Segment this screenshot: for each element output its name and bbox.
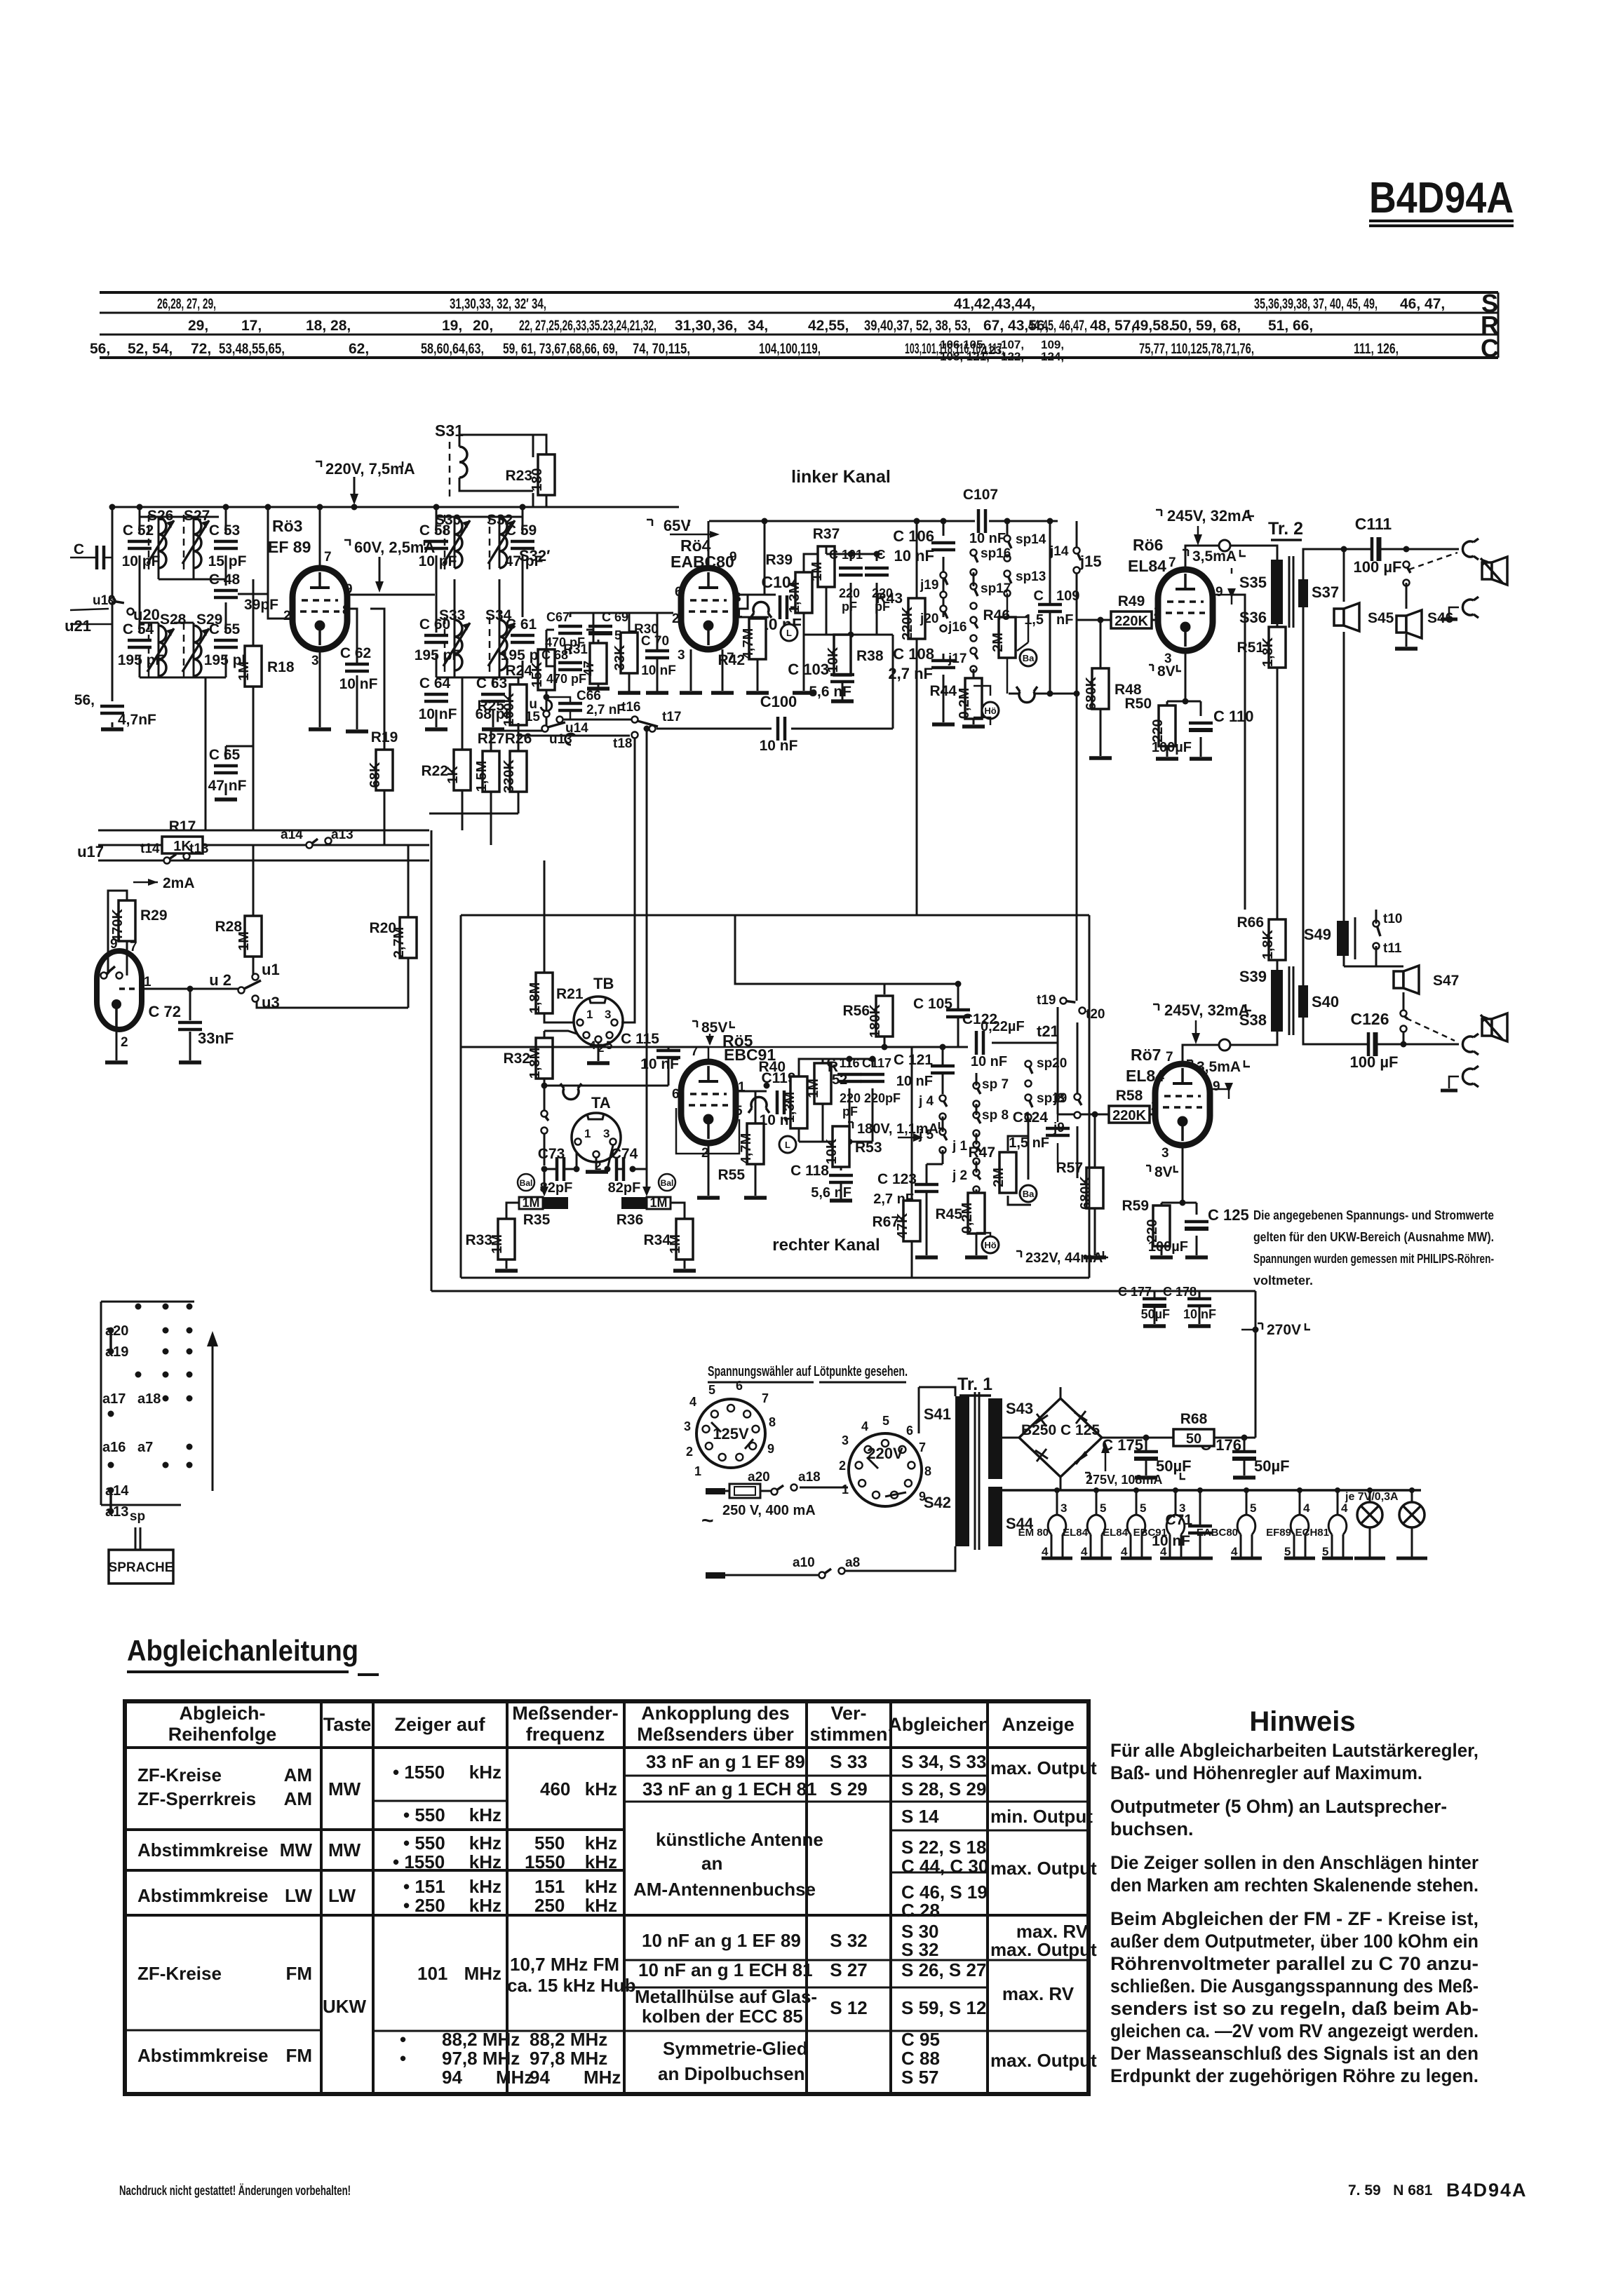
capacitor C109 upper channel xyxy=(1049,521,1051,694)
wire EBC91 cathode gnd xyxy=(708,1143,710,1196)
svg-text:39pF: 39pF xyxy=(244,597,278,613)
wire R55 xyxy=(755,1091,757,1196)
svg-text:85V: 85V xyxy=(701,1020,727,1036)
switch sp13 xyxy=(1004,569,1046,597)
svg-text:R36: R36 xyxy=(617,1212,644,1228)
svg-text:B250 C 125: B250 C 125 xyxy=(1021,1422,1100,1438)
jack socket xyxy=(1462,597,1479,618)
svg-text:10K: 10K xyxy=(824,1138,840,1164)
capacitor C 59 xyxy=(505,522,544,569)
svg-text:LW: LW xyxy=(285,1885,312,1906)
resistor R34 net xyxy=(671,1203,685,1269)
capacitor C121 xyxy=(931,1066,955,1073)
wire EL84 screen pin9 xyxy=(1213,568,1232,605)
svg-text:j 5: j 5 xyxy=(918,1128,934,1142)
mains plug terminal upper xyxy=(706,1488,725,1494)
transformer S40 bar xyxy=(1298,985,1339,1018)
capacitor C178 xyxy=(1199,1291,1201,1324)
svg-text:S 14: S 14 xyxy=(901,1806,939,1827)
svg-text:S49: S49 xyxy=(1304,926,1331,943)
svg-text:3: 3 xyxy=(842,1433,849,1447)
svg-text:künstliche Antenne: künstliche Antenne xyxy=(656,1829,823,1850)
svg-text:S 26, S 27: S 26, S 27 xyxy=(901,1959,986,1980)
svg-text:97,8 MHz: 97,8 MHz xyxy=(530,2048,607,2069)
svg-text:245V, 32mA: 245V, 32mA xyxy=(1164,1001,1250,1019)
svg-text:Hö: Hö xyxy=(984,705,996,716)
svg-text:50µF: 50µF xyxy=(1141,1307,1170,1321)
svg-text:kHz: kHz xyxy=(469,1851,501,1872)
ground xyxy=(586,1170,608,1174)
wire FM IF row verticals xyxy=(436,507,523,727)
svg-text:10 nF: 10 nF xyxy=(339,676,378,692)
svg-text:C 175: C 175 xyxy=(1102,1436,1143,1454)
svg-text:33K: 33K xyxy=(612,644,628,670)
capacitor C100 xyxy=(778,717,785,741)
svg-text:31,30,: 31,30, xyxy=(675,318,715,334)
svg-text:1,3M: 1,3M xyxy=(782,1092,797,1123)
capacitor C111 xyxy=(1372,537,1379,561)
svg-text:1,5 nF: 1,5 nF xyxy=(1009,1135,1049,1151)
svg-text:C: C xyxy=(74,541,84,558)
svg-text:8: 8 xyxy=(769,1415,776,1429)
svg-text:min. Output: min. Output xyxy=(990,1806,1093,1827)
switch sp 7 xyxy=(974,1077,1009,1107)
resistor R27 xyxy=(474,731,504,792)
resistor R49 xyxy=(1111,593,1152,629)
svg-text:j16: j16 xyxy=(948,620,967,635)
tube EM80 indicator xyxy=(97,937,151,1050)
wire tone network left channel xyxy=(943,521,1007,722)
svg-text:an: an xyxy=(701,1853,722,1874)
resistor R50 xyxy=(1150,705,1176,746)
svg-text:S 29: S 29 xyxy=(830,1778,868,1799)
jack socket xyxy=(1462,1066,1479,1087)
capacitor C124 xyxy=(1046,1128,1070,1135)
coil S26 xyxy=(147,508,174,571)
wire R32 bottom junction xyxy=(544,1078,668,1166)
ground xyxy=(831,699,854,703)
svg-text:100 µF: 100 µF xyxy=(1354,558,1402,576)
svg-text:94: 94 xyxy=(530,2067,550,2088)
wire 65V arrow xyxy=(670,534,715,536)
resistor R30 xyxy=(612,633,638,673)
tube Rö5 xyxy=(672,1032,776,1161)
ground xyxy=(587,687,610,691)
tube Rö6 xyxy=(1128,536,1223,666)
svg-text:frequenz: frequenz xyxy=(526,1724,605,1745)
svg-text:R28: R28 xyxy=(215,919,242,935)
ground xyxy=(495,1269,518,1273)
ground xyxy=(915,1255,938,1260)
resistor R18 xyxy=(236,646,295,687)
svg-text:4: 4 xyxy=(589,1039,596,1052)
svg-text:Meßsenders über: Meßsenders über xyxy=(637,1724,794,1745)
svg-text:101: 101 xyxy=(417,1963,447,1984)
ground xyxy=(680,691,702,695)
svg-text:220pF: 220pF xyxy=(864,1091,901,1105)
svg-text:S42: S42 xyxy=(924,1494,951,1511)
speaker S47 xyxy=(1394,966,1459,994)
resistor R33 xyxy=(490,1219,515,1260)
svg-text:t18: t18 xyxy=(613,736,632,751)
svg-text:MW: MW xyxy=(280,1839,313,1861)
transformer Tr2 primary S35 S36 xyxy=(1239,556,1293,628)
svg-text:sp14: sp14 xyxy=(1016,532,1046,547)
wire EABC80 top xyxy=(575,507,708,568)
wire t17 branch to R36 xyxy=(646,729,648,1187)
switch xyxy=(541,1111,549,1134)
svg-text:10 pF: 10 pF xyxy=(419,553,457,569)
svg-text:47 pF: 47 pF xyxy=(505,553,544,569)
svg-text:270V: 270V xyxy=(1267,1322,1301,1338)
capacitor C 48 xyxy=(209,572,241,597)
resistor R47 xyxy=(991,1152,1016,1193)
wire 245V arrow lower xyxy=(1195,1020,1197,1040)
switch sp14 xyxy=(1004,532,1046,562)
svg-text:75,77, 110,125,78,71,76,: 75,77, 110,125,78,71,76, xyxy=(1139,341,1254,357)
jack socket xyxy=(1462,1034,1479,1055)
svg-text:10 nF: 10 nF xyxy=(894,547,934,565)
svg-text:34,: 34, xyxy=(748,318,768,334)
svg-text:4: 4 xyxy=(861,1419,868,1433)
resistor R68 xyxy=(1173,1411,1214,1447)
svg-text:65V: 65V xyxy=(664,517,691,534)
resistor R55 xyxy=(739,1123,764,1164)
svg-text:voltmeter.: voltmeter. xyxy=(1253,1274,1313,1288)
svg-text:C111: C111 xyxy=(1355,515,1392,533)
svg-text:125V: 125V xyxy=(713,1425,749,1443)
capacitor C118 xyxy=(829,1175,853,1182)
tube Rö3 xyxy=(268,517,353,668)
svg-text:3: 3 xyxy=(1161,1146,1169,1161)
svg-text:50, 59, 68,: 50, 59, 68, xyxy=(1171,318,1241,334)
capacitor C 52 xyxy=(122,522,161,569)
svg-text:R46: R46 xyxy=(983,607,1010,623)
svg-text:10 nF an g 1 ECH 81: 10 nF an g 1 ECH 81 xyxy=(638,1959,813,1980)
svg-text:sp: sp xyxy=(130,1509,145,1524)
svg-text:2,7 nF: 2,7 nF xyxy=(888,665,933,682)
resistor R23 xyxy=(505,454,555,495)
svg-text:680K: 680K xyxy=(1078,1176,1093,1210)
wire R30 xyxy=(593,613,658,693)
wire 232V label xyxy=(1016,1250,1108,1266)
svg-text:R56: R56 xyxy=(842,1003,870,1019)
svg-text:2M: 2M xyxy=(990,633,1006,652)
wire S37 to output line xyxy=(1303,549,1459,985)
transformer Tr1 primary xyxy=(924,1392,979,1550)
svg-text:C 48: C 48 xyxy=(209,572,241,588)
svg-text:94: 94 xyxy=(442,2067,462,2088)
svg-text:S45: S45 xyxy=(1368,610,1394,626)
volume pot R53 xyxy=(840,1128,842,1170)
svg-text:R33: R33 xyxy=(465,1232,492,1248)
resistor R56 xyxy=(868,996,893,1038)
wire EF89 pin7 to bus xyxy=(319,507,321,568)
svg-text:C 116: C 116 xyxy=(826,1056,859,1070)
svg-text:2: 2 xyxy=(283,609,291,623)
voltage arrow 220V, 7,5mA xyxy=(316,460,415,505)
svg-text:C 63: C 63 xyxy=(476,675,507,691)
switch j 5 xyxy=(918,1128,947,1154)
balance pot R35 xyxy=(519,1172,568,1228)
svg-text:je 7V/0,3A: je 7V/0,3A xyxy=(1345,1491,1399,1503)
wire C70 xyxy=(656,613,659,693)
wire bass pot R44 xyxy=(973,572,975,724)
treble pot R47 xyxy=(1008,1117,1031,1205)
wire t-col to EL84 grid xyxy=(1057,1043,1059,1066)
svg-text:SPRACHE: SPRACHE xyxy=(109,1560,174,1575)
capacitor C102 xyxy=(865,568,889,575)
wire FM coil frame xyxy=(436,517,523,677)
svg-text:pF: pF xyxy=(842,1105,858,1119)
svg-text:AM: AM xyxy=(284,1788,312,1809)
ground xyxy=(746,691,769,695)
switch u15 xyxy=(546,690,548,697)
svg-text:C: C xyxy=(1481,334,1499,363)
svg-text:S47: S47 xyxy=(1433,973,1459,989)
capacitor C 72 xyxy=(178,1022,202,1029)
svg-text:•: • xyxy=(400,2029,406,2050)
wire R43 column xyxy=(916,521,918,915)
wire primary taps xyxy=(919,1387,955,1571)
svg-text:S 32: S 32 xyxy=(901,1939,939,1960)
svg-text:2mA: 2mA xyxy=(163,875,195,891)
svg-text:111, 126,: 111, 126, xyxy=(1354,341,1399,357)
capacitor C 60 xyxy=(415,616,462,663)
svg-text:senders ist so zu regeln, daß: senders ist so zu regeln, daß beim Ab- xyxy=(1110,1998,1479,2019)
speaker ext xyxy=(1481,557,1507,585)
svg-text:Tr. 1: Tr. 1 xyxy=(957,1375,992,1394)
svg-text:R47: R47 xyxy=(968,1144,995,1161)
wire C71 xyxy=(1199,1490,1201,1558)
svg-text:C 44, C 30: C 44, C 30 xyxy=(901,1856,988,1877)
switch sp20 xyxy=(1025,1056,1068,1087)
svg-text:C 95: C 95 xyxy=(901,2029,940,2050)
svg-text:nF: nF xyxy=(1056,612,1073,628)
svg-text:10 nF: 10 nF xyxy=(419,706,457,722)
svg-text:1,8K: 1,8K xyxy=(1260,929,1276,959)
wire R20 column xyxy=(257,845,408,1008)
resistor R24 xyxy=(505,649,555,690)
svg-text:Meßsender-: Meßsender- xyxy=(512,1703,619,1724)
svg-text:C 52: C 52 xyxy=(123,522,154,539)
svg-text:180K: 180K xyxy=(868,1004,883,1038)
svg-text:1,3M: 1,3M xyxy=(787,582,802,613)
svg-text:R21: R21 xyxy=(556,986,584,1002)
svg-text:C 105: C 105 xyxy=(913,996,952,1012)
svg-text:R50: R50 xyxy=(1124,696,1152,712)
svg-text:C 60: C 60 xyxy=(419,616,450,633)
svg-text:19,: 19, xyxy=(442,318,462,334)
svg-text:10,7 MHz FM: 10,7 MHz FM xyxy=(510,1954,619,1975)
svg-text:Anzeige: Anzeige xyxy=(1002,1714,1075,1735)
resistor R34 xyxy=(668,1219,693,1260)
switch xyxy=(1403,562,1411,586)
svg-text:C 62: C 62 xyxy=(340,645,371,661)
jack socket xyxy=(560,1083,581,1100)
svg-text:C124: C124 xyxy=(1013,1109,1049,1126)
svg-text:TA: TA xyxy=(591,1094,611,1112)
svg-text:R18: R18 xyxy=(267,659,295,675)
svg-text:C 118: C 118 xyxy=(790,1163,829,1179)
switch sp16 xyxy=(971,546,1011,576)
parts row R numbers xyxy=(188,318,1313,334)
svg-text:Bal: Bal xyxy=(661,1178,674,1188)
svg-text:u 2: u 2 xyxy=(209,971,231,989)
svg-text:C71: C71 xyxy=(1165,1512,1192,1528)
svg-text:50µF: 50µF xyxy=(1254,1457,1290,1475)
svg-text:ca. 15 kHz Hub: ca. 15 kHz Hub xyxy=(507,1975,636,1996)
wire EF89 pin9 right xyxy=(347,594,435,596)
svg-text:C: C xyxy=(877,548,886,562)
resistor R32 xyxy=(527,1038,553,1079)
svg-text:a20: a20 xyxy=(748,1470,770,1485)
svg-text:Spannungswähler auf Lötpunkte: Spannungswähler auf Lötpunkte gesehen. xyxy=(708,1364,908,1379)
svg-text:7: 7 xyxy=(691,1044,699,1059)
capacitor C69 xyxy=(588,626,612,633)
svg-text:R22: R22 xyxy=(421,763,448,779)
resistor R44 xyxy=(957,678,982,719)
wire R24 R25 column xyxy=(518,630,546,751)
wire screen column down xyxy=(1232,595,1245,910)
wire C118 gnd xyxy=(840,1182,842,1201)
control Bal left xyxy=(518,1174,534,1191)
svg-text:a8: a8 xyxy=(845,1555,860,1570)
svg-text:EABC80: EABC80 xyxy=(671,553,734,571)
wire lower buses xyxy=(98,830,429,860)
wire lower resistor leads xyxy=(429,677,546,845)
svg-text:56,: 56, xyxy=(90,341,110,357)
capacitor C175 xyxy=(1134,1452,1158,1459)
wire cathode EL84 xyxy=(1167,651,1201,757)
label 3,5mA xyxy=(1183,548,1246,565)
capacitor C115 net xyxy=(461,1018,708,1086)
svg-text:220V, 7,5mA: 220V, 7,5mA xyxy=(325,460,415,478)
svg-text:kHz: kHz xyxy=(469,1876,501,1897)
wire grid coupling caps C67 C68 path xyxy=(546,613,593,677)
switch u14 u13 xyxy=(542,717,589,748)
resistor R53 xyxy=(824,1126,882,1167)
svg-text:4,7M: 4,7M xyxy=(739,1133,754,1164)
resistor R45 xyxy=(959,1193,985,1234)
svg-text:R42: R42 xyxy=(718,652,745,668)
ground xyxy=(105,1060,128,1065)
parts row S numbers xyxy=(157,296,1445,312)
transformer Tr2 secondary S37 xyxy=(1298,579,1339,607)
wire grid bus right channel xyxy=(884,1007,1058,1047)
svg-text:R39: R39 xyxy=(765,552,793,568)
svg-text:R20: R20 xyxy=(369,920,396,936)
svg-text:97,8 MHz: 97,8 MHz xyxy=(442,2048,520,2069)
svg-text:82pF: 82pF xyxy=(608,1180,641,1196)
ground xyxy=(1143,1324,1166,1328)
svg-text:6: 6 xyxy=(672,1087,680,1102)
svg-text:Der Masseanschluß des Signals: Der Masseanschluß des Signals ist an den xyxy=(1110,2043,1479,2064)
wire to S46 xyxy=(1406,583,1408,647)
capacitor C101 xyxy=(839,568,863,575)
fuse xyxy=(722,1484,816,1518)
ground xyxy=(697,1196,720,1200)
capacitor C123 xyxy=(915,1184,938,1191)
svg-text:t11: t11 xyxy=(1383,941,1402,956)
svg-text:2: 2 xyxy=(1154,605,1161,619)
svg-text:• 550: • 550 xyxy=(403,1832,445,1853)
svg-text:MHz: MHz xyxy=(496,2067,533,2088)
svg-text:an Dipolbuchsen: an Dipolbuchsen xyxy=(658,2063,804,2084)
switch j19 xyxy=(920,572,948,598)
capacitor C125 xyxy=(1185,1222,1208,1229)
svg-text:EF89: EF89 xyxy=(1266,1527,1291,1539)
ground xyxy=(425,727,447,731)
balance pot R36 xyxy=(617,1187,671,1228)
svg-text:1,8M: 1,8M xyxy=(527,982,543,1013)
wire 275V arrow xyxy=(1105,1446,1107,1471)
capacitor C 55 xyxy=(204,621,251,668)
wire C104 to R39 xyxy=(790,607,804,609)
switch j 1 xyxy=(952,1139,981,1165)
svg-text:a18: a18 xyxy=(798,1470,821,1485)
svg-text:2: 2 xyxy=(686,1445,693,1459)
svg-text:4: 4 xyxy=(689,1395,696,1409)
svg-text:~: ~ xyxy=(701,1509,714,1532)
wire EBC91 plate bus xyxy=(708,1034,884,1062)
svg-text:sp13: sp13 xyxy=(1016,569,1046,584)
svg-text:Reihenfolge: Reihenfolge xyxy=(168,1724,277,1745)
svg-text:10 nF: 10 nF xyxy=(896,1074,933,1089)
svg-text:88,2 MHz: 88,2 MHz xyxy=(442,2029,520,2050)
svg-text:S38: S38 xyxy=(1239,1011,1267,1029)
wire u13 lower line xyxy=(518,723,630,736)
wire R21 column top xyxy=(544,860,581,1038)
svg-text:j14: j14 xyxy=(1049,544,1069,559)
svg-text:8: 8 xyxy=(342,603,350,618)
svg-text:gelten für den UKW-Bereich (Au: gelten für den UKW-Bereich (Ausnahme MW)… xyxy=(1253,1230,1494,1244)
svg-text:S 32: S 32 xyxy=(830,1930,868,1951)
svg-text:Baß- und Höhenregler auf Maxim: Baß- und Höhenregler auf Maximum. xyxy=(1110,1762,1422,1783)
switch j 4 xyxy=(918,1094,947,1120)
wire R39 to network xyxy=(804,554,826,635)
svg-text:49,58.: 49,58. xyxy=(1132,318,1173,334)
wire R29 net xyxy=(108,891,238,1060)
svg-text:1M: 1M xyxy=(649,1196,667,1210)
svg-text:Abstimmkreise: Abstimmkreise xyxy=(137,2045,268,2066)
wire 245V arrow upper xyxy=(1197,526,1199,541)
capacitor C 66 xyxy=(558,703,582,710)
svg-text:Outputmeter (5 Ohm) an Lautspr: Outputmeter (5 Ohm) an Lautsprecher- xyxy=(1110,1796,1447,1817)
svg-text:u20: u20 xyxy=(133,606,160,623)
control Hö xyxy=(982,702,999,719)
wire EBC91 feedback box xyxy=(676,1108,739,1154)
ground xyxy=(309,727,331,731)
svg-text:4: 4 xyxy=(1121,1545,1128,1558)
svg-text:ZF-Kreise: ZF-Kreise xyxy=(137,1764,222,1785)
switch a20 xyxy=(748,1470,821,1495)
svg-text:S37: S37 xyxy=(1312,583,1339,601)
svg-text:j17: j17 xyxy=(948,651,967,666)
svg-text:ZF-Kreise: ZF-Kreise xyxy=(137,1963,222,1984)
capacitor C66 net xyxy=(546,697,570,720)
svg-text:R44: R44 xyxy=(929,683,957,699)
capacitor C71 xyxy=(1188,1526,1212,1533)
svg-text:72,: 72, xyxy=(191,341,211,357)
svg-text:5: 5 xyxy=(882,1414,889,1428)
svg-text:C67: C67 xyxy=(546,610,570,624)
ground xyxy=(673,1269,696,1273)
control Ba xyxy=(1020,649,1037,666)
svg-text:470 pF: 470 pF xyxy=(546,672,586,686)
svg-text:kHz: kHz xyxy=(469,1804,501,1825)
svg-text:Rö7: Rö7 xyxy=(1131,1046,1161,1064)
